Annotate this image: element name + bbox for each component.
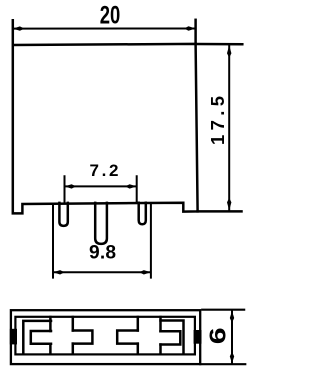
dimension 6: line bbox=[231, 311, 233, 363]
right wall slot blob bbox=[194, 330, 202, 344]
9.8 right arrow bbox=[139, 270, 151, 274]
dimension 6: extensions bbox=[200, 310, 245, 365]
6 bottom arrow bbox=[230, 352, 234, 364]
bottom view terminal 3 cross bar bbox=[138, 317, 161, 354]
dimension 9.8: extension lines bbox=[53, 203, 151, 278]
front view top edge extension (right, for 17.5) bbox=[197, 43, 243, 46]
20 right arrow bbox=[184, 26, 196, 30]
svg-text:17.5: 17.5 bbox=[207, 96, 228, 145]
arrowheads bbox=[13, 26, 234, 363]
svg-text:6: 6 bbox=[204, 327, 230, 344]
svg-text:7.2: 7.2 bbox=[90, 161, 119, 180]
17.5 bottom arrow bbox=[227, 198, 231, 211]
svg-text:9.8: 9.8 bbox=[89, 243, 116, 264]
bottom view terminal 3 left arm bbox=[117, 331, 138, 344]
bottom view terminal 3 C-bracket bbox=[161, 321, 184, 355]
bottom view terminal 1 right arm bbox=[73, 331, 93, 344]
bottom view terminal 1 cross bar bbox=[50, 317, 72, 354]
dimension 17.5: line bbox=[228, 46, 230, 210]
right prong bbox=[139, 203, 146, 225]
7.2 left arrow bbox=[65, 184, 77, 188]
17.5 top arrow bbox=[227, 45, 231, 58]
20 left arrow bbox=[13, 26, 25, 30]
bottom view inner rect bbox=[15, 317, 195, 355]
bottom view outer rect bbox=[11, 310, 200, 364]
6 top arrow bbox=[230, 311, 234, 323]
dimension 7.2: line bbox=[66, 185, 135, 187]
dimension 20: line bbox=[14, 28, 195, 30]
svg-text:20: 20 bbox=[100, 2, 121, 30]
left wall slot blob bbox=[10, 329, 17, 345]
front view body outline bbox=[13, 20, 198, 213]
7.2 right arrow bbox=[125, 184, 137, 188]
bottom view terminal 1 C-bracket bbox=[23, 321, 51, 354]
left prong bbox=[59, 203, 67, 226]
9.8 left arrow bbox=[53, 270, 65, 274]
dimension 7.2: extension lines bbox=[65, 176, 137, 202]
middle prong bbox=[95, 203, 107, 244]
front view bottom-right foot edge extension (for 17.5) bbox=[198, 210, 242, 213]
front view right edge extension up (for 20) bbox=[194, 20, 197, 44]
dimension 9.8: line bbox=[54, 271, 149, 273]
